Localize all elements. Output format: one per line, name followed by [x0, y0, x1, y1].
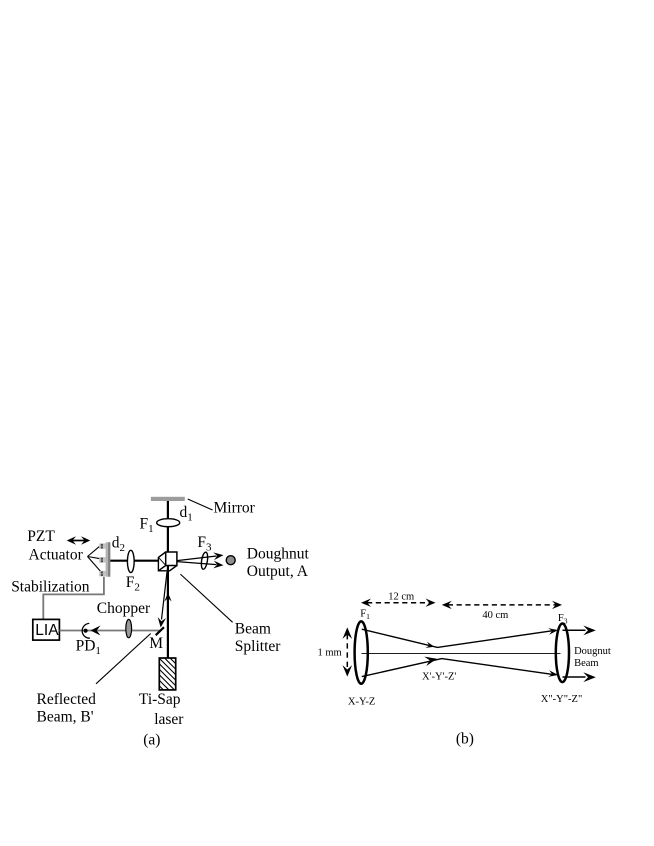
svg-text:X-Y-Z: X-Y-Z: [348, 696, 375, 707]
mirror M2 (top flat mirror): [151, 497, 185, 501]
wire: vertical beam mirror to beamsplitter: [167, 501, 169, 552]
svg-text:Beam, B': Beam, B': [37, 708, 94, 725]
PZT pad 1: [99, 543, 105, 548]
lens F1 large (part b): [355, 621, 368, 683]
svg-text:Beam: Beam: [574, 658, 599, 669]
PZT pad 2: [99, 557, 105, 562]
lens F3 (tilted): [200, 552, 208, 570]
doughnut output spot: [226, 556, 235, 565]
svg-text:Output, A: Output, A: [247, 563, 309, 580]
dimension arrow 1 mm (dashed vertical double-headed): [343, 627, 353, 676]
output beam lower (to doughnut): [177, 561, 224, 569]
PZT pad 3: [99, 571, 105, 576]
pointer line to beam splitter label: [180, 574, 232, 622]
svg-text:(b): (b): [456, 730, 474, 747]
svg-text:Stabilization: Stabilization: [11, 579, 90, 596]
optical axis centerline: [362, 652, 561, 654]
LIA box U1: [33, 619, 60, 640]
svg-text:12 cm: 12 cm: [388, 591, 414, 602]
Ti-Sap laser box with hatching: [121, 653, 213, 695]
beamsplitter cube BS1: [158, 552, 177, 571]
PZT double-headed arrow: [67, 536, 91, 545]
svg-text:Mirror: Mirror: [214, 500, 256, 517]
dimension arrow 12 cm (dashed double-headed): [361, 599, 436, 607]
svg-text:X'-Y'-Z': X'-Y'-Z': [422, 672, 456, 683]
svg-text:laser: laser: [154, 711, 184, 728]
mirror M3 on PZT actuator (vertical gray bar): [106, 542, 111, 576]
pointer line to Reflected Beam label: [96, 634, 151, 684]
lens F3 large (part b): [556, 624, 569, 683]
svg-text:PZT: PZT: [27, 528, 55, 545]
lens F1: [157, 519, 180, 527]
svg-text:M: M: [149, 635, 163, 652]
svg-text:Chopper: Chopper: [97, 600, 151, 617]
reflected beam B' from beamsplitter down to mirror M: [158, 572, 167, 628]
svg-text:Splitter: Splitter: [235, 638, 281, 655]
svg-text:Dougnut: Dougnut: [574, 646, 611, 657]
svg-text:1 mm: 1 mm: [318, 648, 342, 659]
svg-text:Actuator: Actuator: [29, 546, 84, 563]
lens F2: [127, 550, 134, 572]
output beam top arrow (doughnut beam): [563, 626, 596, 636]
svg-text:LIA: LIA: [35, 622, 59, 639]
svg-text:Doughnut: Doughnut: [247, 545, 310, 562]
svg-text:40 cm: 40 cm: [482, 610, 508, 621]
output beam upper (to doughnut): [177, 552, 224, 560]
label pointer line to Mirror: [188, 499, 213, 510]
wire: beamsplitter down to M region (laser beam up): [164, 566, 171, 658]
svg-text:Ti-Sap: Ti-Sap: [139, 691, 181, 708]
svg-text:Reflected: Reflected: [37, 691, 97, 708]
mirror M (small 45deg mirror): [156, 627, 164, 635]
svg-text:X"-Y"-Z": X"-Y"-Z": [541, 694, 582, 705]
pointer fan lines from Actuator label to PZT pads: [88, 547, 102, 573]
beam ray bottom: F1 to waist to F3: [362, 657, 558, 677]
beam ray top: F1 to waist to F3: [362, 628, 558, 648]
wire: LIA to M (signal line through chopper): [59, 630, 159, 632]
wire: stabilization feedback PZT to LIA: [43, 577, 104, 620]
svg-text:(a): (a): [143, 732, 160, 749]
chopper wheel: [126, 619, 132, 637]
wire: beam PZT mirror to beamsplitter: [110, 560, 159, 562]
output beam bottom arrow (doughnut beam): [563, 672, 596, 682]
dimension arrow 40 cm (dashed double-headed): [442, 601, 562, 609]
photodiode PD1 symbol: [82, 623, 100, 638]
svg-text:Beam: Beam: [235, 621, 271, 638]
